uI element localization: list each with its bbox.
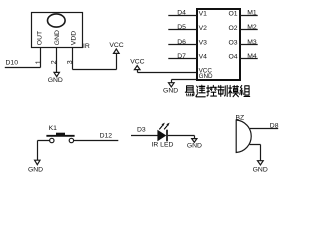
svg-text:VDD: VDD bbox=[71, 31, 78, 45]
ground (K1) bbox=[35, 160, 40, 165]
wire pin2 down bbox=[56, 48, 58, 73]
svg-text:D6: D6 bbox=[177, 39, 186, 46]
wire LED cathode to ground bbox=[168, 136, 195, 139]
svg-text:D12: D12 bbox=[100, 132, 113, 139]
svg-text:O4: O4 bbox=[229, 54, 238, 61]
svg-text:D3: D3 bbox=[137, 126, 146, 133]
svg-text:V2: V2 bbox=[199, 25, 208, 32]
wire D4 bbox=[168, 15, 197, 17]
wire K1 to D12 bbox=[74, 140, 119, 142]
wire D7 bbox=[168, 58, 197, 60]
svg-text:O3: O3 bbox=[229, 39, 238, 46]
svg-text:V4: V4 bbox=[199, 54, 208, 61]
svg-text:M1: M1 bbox=[247, 10, 257, 17]
wire M2 bbox=[240, 29, 258, 31]
IR receiver module IR bbox=[32, 13, 83, 48]
buzzer BZ bbox=[236, 115, 252, 153]
wire module GND bbox=[172, 80, 197, 83]
svg-text:2: 2 bbox=[51, 60, 58, 64]
glyph 馬 bbox=[185, 86, 194, 96]
IR LED D3 bbox=[152, 123, 174, 149]
svg-text:IR: IR bbox=[83, 43, 90, 50]
wire M4 bbox=[240, 58, 258, 60]
switch K1 bbox=[46, 125, 74, 143]
glyph 控 bbox=[207, 85, 217, 96]
svg-text:O1: O1 bbox=[229, 10, 238, 17]
wire VCC to module bbox=[138, 70, 197, 73]
ground (module) bbox=[169, 83, 175, 87]
ground (IR LED) bbox=[192, 139, 197, 143]
svg-text:VCC: VCC bbox=[109, 42, 123, 49]
wire D5 bbox=[168, 29, 197, 31]
svg-text:D8: D8 bbox=[270, 123, 279, 130]
svg-text:OUT: OUT bbox=[37, 31, 44, 45]
svg-text:D10: D10 bbox=[6, 60, 19, 67]
caption 馬達控制模組 (drawn glyphs) bbox=[185, 85, 249, 97]
wire M1 bbox=[240, 15, 258, 17]
svg-text:M2: M2 bbox=[247, 24, 257, 31]
svg-text:GND: GND bbox=[253, 166, 268, 173]
wire M3 bbox=[240, 44, 258, 46]
wire D3 to LED anode bbox=[131, 135, 158, 137]
glyph 組 bbox=[240, 85, 250, 96]
svg-text:GND: GND bbox=[48, 77, 63, 84]
glyph 制 bbox=[218, 85, 227, 96]
svg-text:GND: GND bbox=[187, 143, 202, 150]
svg-text:D5: D5 bbox=[177, 24, 186, 31]
svg-text:GND: GND bbox=[163, 87, 178, 94]
svg-text:O2: O2 bbox=[229, 25, 238, 32]
wire BZ to ground bbox=[250, 145, 261, 161]
svg-text:D7: D7 bbox=[177, 53, 186, 60]
power VCC (IR) bbox=[114, 49, 120, 53]
svg-text:GND: GND bbox=[199, 73, 213, 80]
svg-text:M3: M3 bbox=[247, 39, 257, 46]
svg-text:VCC: VCC bbox=[130, 59, 144, 66]
wire K1 left to ground bbox=[38, 141, 50, 161]
wire D6 bbox=[168, 44, 197, 46]
svg-text:V3: V3 bbox=[199, 39, 208, 46]
svg-text:V1: V1 bbox=[199, 10, 208, 17]
svg-text:M4: M4 bbox=[247, 53, 257, 60]
glyph 達 bbox=[196, 85, 205, 97]
svg-text:D4: D4 bbox=[177, 10, 186, 17]
ground (BZ) bbox=[258, 161, 264, 165]
svg-text:IR LED: IR LED bbox=[152, 142, 174, 149]
glyph 模 bbox=[229, 85, 239, 96]
motor control module U1 bbox=[197, 9, 240, 80]
power VCC (motor module) bbox=[134, 66, 140, 70]
wire pin1 to D10 bbox=[5, 48, 41, 68]
wire BZ to D8 bbox=[250, 128, 278, 130]
ground (IR pin2) bbox=[54, 72, 59, 76]
svg-text:1: 1 bbox=[35, 60, 42, 64]
svg-text:GND: GND bbox=[54, 30, 61, 45]
svg-text:K1: K1 bbox=[49, 125, 58, 132]
wire pin3 to VCC bbox=[73, 48, 117, 70]
svg-text:GND: GND bbox=[28, 167, 43, 174]
